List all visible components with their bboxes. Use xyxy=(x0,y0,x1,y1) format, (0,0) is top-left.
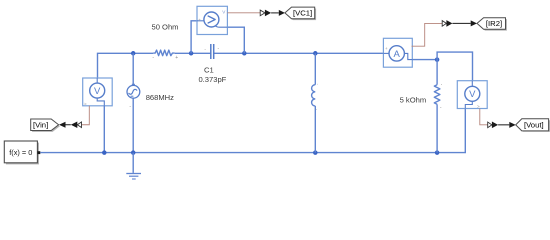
signal wire to VC1 tag xyxy=(271,10,285,16)
svg-text:f(x) = 0: f(x) = 0 xyxy=(9,148,32,157)
node junction R2 top xyxy=(435,57,440,62)
AC voltage source V1 wire xyxy=(132,53,134,152)
svg-text:V: V xyxy=(469,89,476,100)
node junction U2 bottom xyxy=(102,150,107,155)
node junction source top xyxy=(131,51,136,56)
svg-text:.: . xyxy=(441,81,443,87)
svg-text:[VC1]: [VC1] xyxy=(293,9,312,18)
svg-text:0.373pF: 0.373pF xyxy=(198,75,226,84)
svg-text:.: . xyxy=(317,80,318,86)
AC voltage source V1 868MHz xyxy=(127,84,140,109)
resistor R1 50 Ohm xyxy=(152,50,178,61)
goto tag Vin xyxy=(31,119,60,132)
node junction left of C1 xyxy=(189,51,194,56)
PS-Simulink converter for Vout xyxy=(488,122,498,129)
svg-text:5 kOhm: 5 kOhm xyxy=(400,95,427,104)
svg-text:A: A xyxy=(394,49,401,60)
node junction R2 bottom xyxy=(435,150,440,155)
node junction ground xyxy=(131,150,136,155)
goto tag IR2 xyxy=(477,18,507,31)
wire U2 bottom lead xyxy=(103,106,105,153)
svg-text:.: . xyxy=(204,46,206,52)
svg-text:+: + xyxy=(385,46,388,51)
voltage sensor U1 (across C1) xyxy=(197,6,227,34)
wire main top rail xyxy=(98,53,384,78)
voltage sensor U4 (Vout) xyxy=(457,81,487,109)
svg-text:+: + xyxy=(198,17,201,22)
PS-Simulink converter for IR2 xyxy=(442,20,452,27)
svg-text:>: > xyxy=(84,101,87,106)
solver configuration f(x)=0 xyxy=(4,141,40,164)
resistor R2 5 kOhm xyxy=(434,60,442,153)
svg-text:50 Ohm: 50 Ohm xyxy=(151,23,178,32)
wire bottom ground rail xyxy=(40,109,465,153)
wire PS output of U1 xyxy=(227,12,260,14)
wire U3 output xyxy=(412,59,437,61)
svg-text:>: > xyxy=(477,104,480,109)
svg-text:-: - xyxy=(218,46,220,52)
signal wire to Vin tag xyxy=(59,122,71,128)
svg-text:-: - xyxy=(440,105,442,111)
current sensor U3 xyxy=(383,38,412,67)
signal wire to Vout tag xyxy=(498,122,516,128)
wire VC1 sensor left lead xyxy=(191,21,197,54)
signal wire to IR2 tag xyxy=(452,20,477,26)
inductor L1 xyxy=(312,53,318,152)
node junction right of C1 xyxy=(242,51,247,56)
node junction inductor top xyxy=(313,51,318,56)
svg-text:[Vout]: [Vout] xyxy=(524,121,544,130)
svg-text:868MHz: 868MHz xyxy=(146,93,174,102)
svg-text:V: V xyxy=(94,86,101,97)
wire PS output of U4 xyxy=(480,109,488,125)
capacitor C1 xyxy=(204,44,219,59)
label C1 value xyxy=(198,66,226,84)
PS-Simulink converter for VC1 xyxy=(260,10,271,17)
svg-text:.: . xyxy=(316,106,317,112)
voltage sensor U2 (Vin) xyxy=(83,78,113,106)
svg-text:[Vin]: [Vin] xyxy=(33,121,48,130)
wire PS output of U2 xyxy=(82,106,90,125)
wire to Vout sensor top xyxy=(437,52,472,81)
svg-text:[IR2]: [IR2] xyxy=(486,19,502,28)
wire VC1 sensor right lead xyxy=(227,27,244,53)
goto tag Vout xyxy=(516,119,550,132)
PS-Simulink converter for Vin xyxy=(71,121,82,128)
svg-text:-: - xyxy=(129,103,131,109)
ground electrical reference xyxy=(126,153,141,179)
svg-text:-: - xyxy=(152,54,154,60)
svg-text:+: + xyxy=(175,55,178,61)
goto tag VC1 xyxy=(285,7,316,20)
svg-text:C1: C1 xyxy=(204,66,214,75)
node junction inductor bottom xyxy=(313,150,318,155)
wire PS output of U3 xyxy=(412,23,443,46)
